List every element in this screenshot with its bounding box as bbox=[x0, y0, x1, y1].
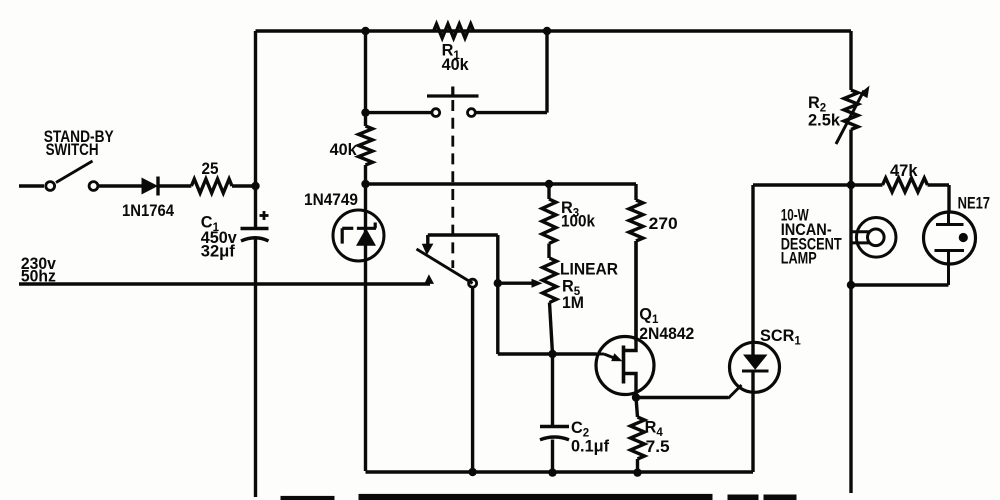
svg-text:47k: 47k bbox=[890, 162, 918, 180]
svg-text:NE17: NE17 bbox=[958, 195, 990, 213]
svg-text:0.1μf: 0.1μf bbox=[571, 438, 610, 456]
svg-text:LAMP: LAMP bbox=[781, 250, 817, 268]
svg-text:1N4749: 1N4749 bbox=[304, 191, 358, 209]
svg-text:2.5k: 2.5k bbox=[808, 112, 841, 130]
svg-text:SWITCH: SWITCH bbox=[46, 141, 99, 159]
svg-text:7.5: 7.5 bbox=[646, 438, 670, 456]
svg-text:LINEAR: LINEAR bbox=[560, 260, 618, 278]
svg-text:1N1764: 1N1764 bbox=[122, 202, 174, 220]
svg-text:32μf: 32μf bbox=[201, 243, 236, 261]
svg-text:1M: 1M bbox=[562, 294, 584, 312]
svg-text:40k: 40k bbox=[442, 56, 470, 74]
svg-text:270: 270 bbox=[649, 215, 678, 233]
svg-text:100k: 100k bbox=[561, 213, 596, 231]
svg-text:40k: 40k bbox=[330, 141, 358, 159]
svg-text:50hz: 50hz bbox=[21, 268, 56, 286]
svg-text:2N4842: 2N4842 bbox=[639, 325, 694, 343]
svg-text:25: 25 bbox=[202, 160, 219, 178]
